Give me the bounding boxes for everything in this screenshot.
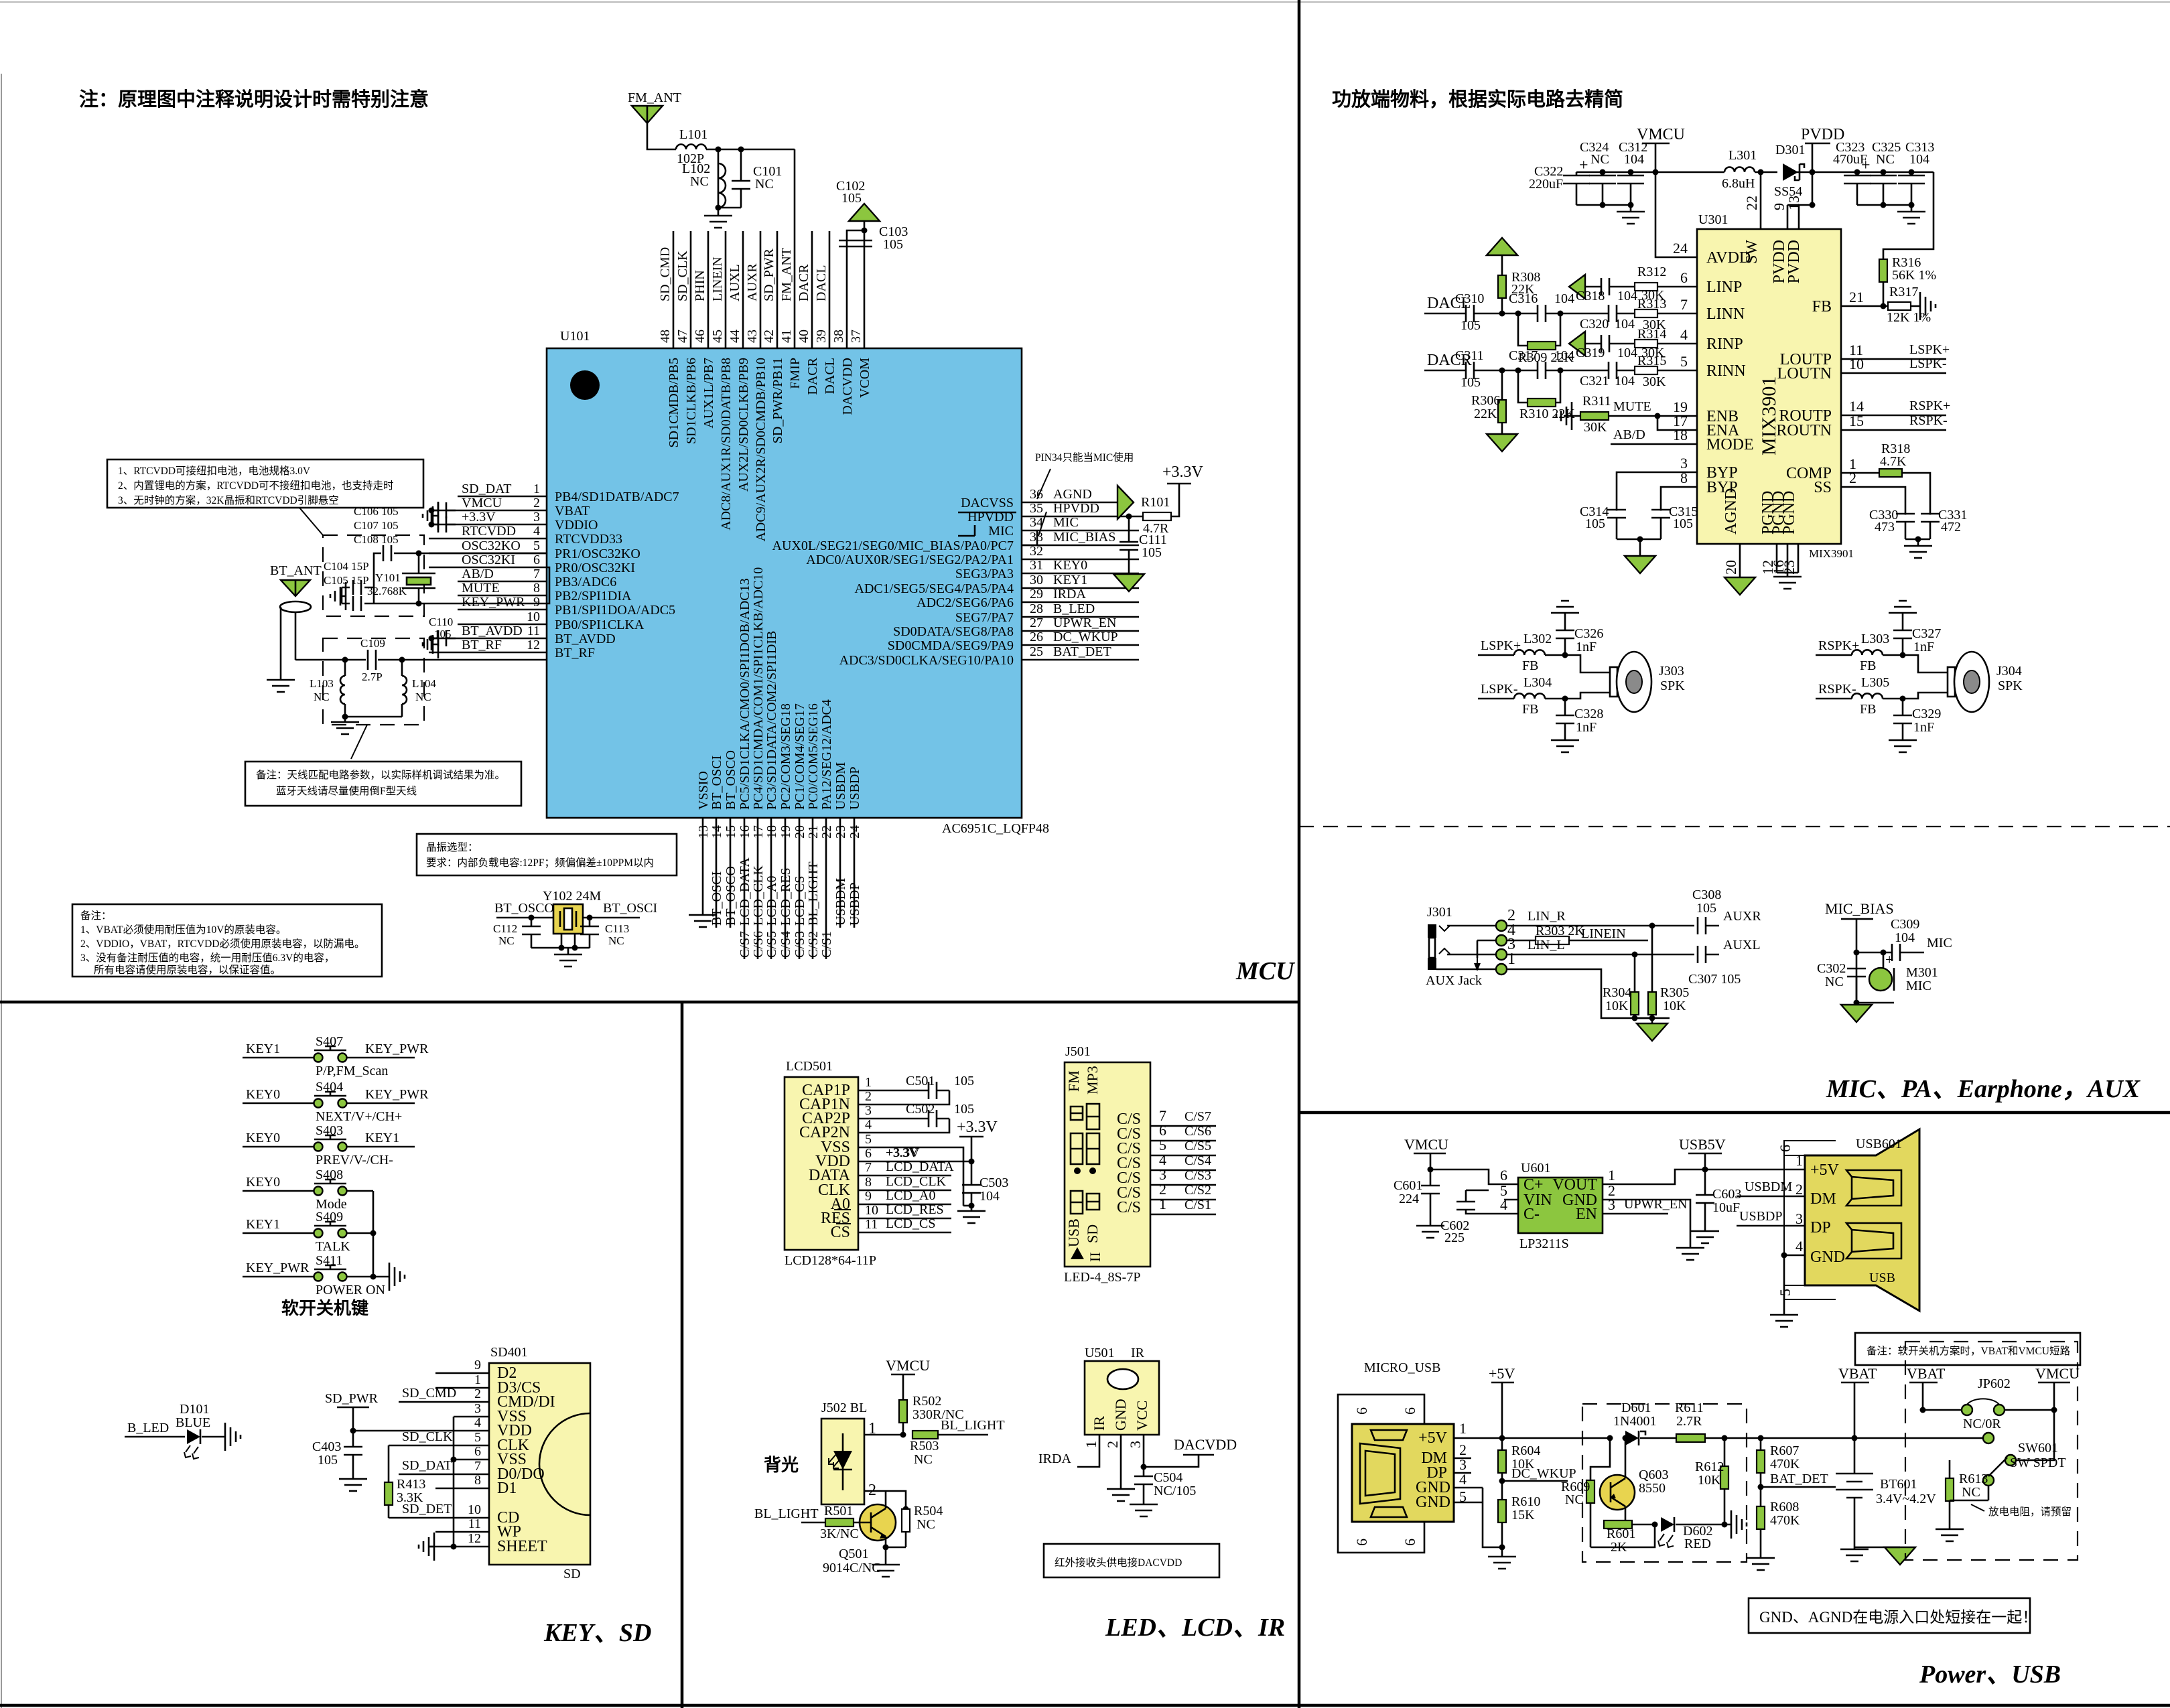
junction C323 top: [1854, 169, 1860, 175]
svg-text:DACVSS: DACVSS: [961, 496, 1014, 510]
svg-text:39: 39: [814, 330, 829, 343]
svg-text:SD_DAT: SD_DAT: [462, 482, 511, 496]
svg-text:C/S4: C/S4: [1184, 1153, 1211, 1168]
wire dc_wkup: [1502, 1480, 1568, 1482]
wire sd pin9: [435, 1372, 489, 1374]
svg-text:1nF: 1nF: [1913, 640, 1934, 654]
svg-text:NC: NC: [1876, 152, 1895, 167]
svg-text:12K 1%: 12K 1%: [1887, 310, 1931, 325]
svg-text:C504: C504: [1154, 1470, 1182, 1485]
svg-text:SD1CLKB/PB6: SD1CLKB/PB6: [684, 358, 699, 444]
svg-text:8: 8: [865, 1175, 872, 1190]
ground C329: [1889, 737, 1917, 752]
J501 digit b2: [1087, 1133, 1099, 1164]
junction BT_RF a: [342, 657, 348, 663]
svg-text:AUXL: AUXL: [728, 264, 742, 301]
svg-text:IR: IR: [1091, 1416, 1107, 1431]
svg-text:RSPK+: RSPK+: [1909, 399, 1950, 413]
wire J501 pin 6: [1150, 1140, 1216, 1142]
svg-text:AB/D: AB/D: [462, 567, 494, 581]
svg-text:U601: U601: [1521, 1161, 1550, 1176]
wire q501 gnd: [885, 1547, 887, 1561]
junction LIN_R: [1649, 923, 1655, 929]
wire Y102 bottom: [531, 947, 590, 949]
wire key common: [373, 1191, 381, 1277]
svg-text:2.7P: 2.7P: [362, 670, 383, 683]
MICRO_USB body: [1352, 1424, 1454, 1522]
section divider vertical center: [1298, 0, 1301, 1708]
junction BT_RF b: [399, 657, 405, 663]
svg-text:AC6951C_LQFP48: AC6951C_LQFP48: [942, 821, 1049, 836]
wire DACR row: [1424, 370, 1467, 372]
svg-text:104: 104: [1615, 374, 1635, 388]
junction HPVDD node: [1126, 514, 1132, 520]
capacitor C105: [353, 596, 361, 611]
+3.3V T bar lcd: [959, 1136, 984, 1138]
junction C107: [429, 522, 435, 528]
ground PGND: [1773, 573, 1802, 589]
svg-text:L302: L302: [1523, 632, 1552, 646]
wire fb elbow: [1883, 172, 1934, 259]
J501 digit a1: [1071, 1107, 1083, 1120]
wire 5v rail to vbat: [1761, 1437, 1980, 1439]
J501 digit c2: [1087, 1194, 1099, 1210]
wire j502 pin2: [864, 1491, 906, 1509]
junction +5v: [1499, 1435, 1505, 1441]
J301 contact marks: [1439, 926, 1450, 954]
svg-text:NEXT/V+/CH+: NEXT/V+/CH+: [316, 1109, 402, 1124]
resistor R316: [1879, 259, 1887, 282]
transistor Q501: [860, 1504, 896, 1541]
wire R312 to LINP: [1657, 286, 1697, 288]
svg-text:NC: NC: [1590, 152, 1609, 167]
wire U101 bottom pin 18: [770, 818, 772, 959]
resistor R413: [385, 1482, 393, 1505]
svg-text:5: 5: [474, 1430, 481, 1445]
svg-text:2.7R: 2.7R: [1676, 1414, 1702, 1429]
svg-text:105: 105: [1461, 375, 1481, 390]
wire U101 bottom pin 21: [812, 818, 814, 959]
junction q501 e: [883, 1545, 889, 1551]
svg-text:MCU: MCU: [1235, 957, 1296, 985]
svg-text:104: 104: [1615, 317, 1635, 332]
svg-text:4: 4: [533, 524, 540, 539]
resistor R504: [902, 1509, 910, 1532]
resistor R310 loop: [1518, 370, 1560, 403]
ground U601 gnd: [1676, 1242, 1704, 1260]
svg-text:II: II: [1087, 1252, 1103, 1262]
svg-text:AGND: AGND: [1722, 488, 1740, 535]
junction FM a: [716, 147, 722, 153]
DACVDD T bar: [1183, 1454, 1214, 1456]
svg-text:4: 4: [865, 1117, 872, 1132]
junction RSPK-: [1900, 696, 1906, 702]
svg-text:7: 7: [1680, 296, 1688, 313]
svg-text:BT_RF: BT_RF: [462, 638, 502, 652]
svg-text:6: 6: [533, 553, 540, 567]
note box capacitors: [72, 904, 382, 977]
svg-text:R611: R611: [1675, 1401, 1704, 1415]
J501 triangle: [1071, 1247, 1084, 1259]
wire U101 top pin 47: [690, 231, 692, 348]
svg-text:KEY、SD: KEY、SD: [543, 1619, 651, 1647]
svg-text:R608: R608: [1770, 1500, 1799, 1514]
svg-text:POWER ON: POWER ON: [316, 1283, 385, 1297]
svg-text:C327: C327: [1912, 626, 1941, 641]
svg-text:LINEIN: LINEIN: [1581, 926, 1626, 941]
svg-text:105: 105: [434, 628, 452, 640]
resistor R101: [1143, 512, 1171, 520]
capacitor C106: [438, 502, 446, 518]
+3.3V T bar: [1167, 483, 1191, 485]
wire +3.3V stem lcd: [971, 1137, 973, 1186]
svg-text:FB: FB: [1812, 298, 1832, 315]
svg-text:470K: 470K: [1770, 1513, 1800, 1528]
svg-text:17: 17: [751, 825, 766, 839]
svg-text:C317: C317: [1509, 348, 1538, 363]
svg-text:VCOM: VCOM: [858, 358, 872, 398]
svg-text:KEY1: KEY1: [246, 1042, 280, 1056]
wire q603 collector: [1625, 1438, 1627, 1478]
svg-text:SD0CMDA/SEG9/PA9: SD0CMDA/SEG9/PA9: [888, 638, 1014, 653]
note box usb short: [1855, 1333, 2080, 1365]
svg-text:DC_WKUP: DC_WKUP: [1053, 630, 1118, 644]
svg-text:KEY0: KEY0: [1053, 558, 1087, 573]
svg-text:C601: C601: [1394, 1178, 1422, 1193]
junction vbat: [1852, 1435, 1858, 1441]
power arrow C102: [849, 204, 880, 221]
wire comp elbow: [1902, 473, 1930, 514]
junction usb5v: [1702, 1167, 1708, 1173]
svg-text:C/S: C/S: [1117, 1199, 1141, 1216]
svg-text:470uF: 470uF: [1833, 152, 1867, 167]
wire bypass bottoms left: [1576, 204, 1631, 206]
svg-text:21: 21: [1849, 289, 1864, 305]
USB601 outer bracket: [1784, 1141, 1836, 1299]
svg-text:45: 45: [710, 330, 725, 343]
svg-text:C/S1: C/S1: [1184, 1198, 1211, 1212]
svg-text:30K: 30K: [1643, 374, 1666, 389]
svg-text:1: 1: [1507, 950, 1515, 968]
wire aux gnd join: [1635, 1017, 1652, 1019]
wire LSPK- row: [1478, 698, 1514, 700]
resistor R313: [1635, 309, 1657, 317]
wire bat_det: [1761, 1486, 1836, 1488]
wire L102 top: [718, 149, 720, 163]
svg-text:LOUTN: LOUTN: [1777, 365, 1832, 382]
speaker J304: [1948, 667, 1955, 697]
svg-text:EN: EN: [1576, 1206, 1597, 1223]
junction d601 in: [1607, 1435, 1613, 1441]
leader PIN34 b: [1038, 512, 1046, 536]
ground rake VMCU cluster: [423, 502, 438, 530]
svg-text:SD: SD: [1084, 1224, 1101, 1243]
svg-text:48: 48: [658, 330, 673, 343]
svg-text:BT_OSCO: BT_OSCO: [724, 750, 738, 810]
wire sd pin8: [435, 1488, 489, 1490]
svg-text:S404: S404: [316, 1080, 343, 1094]
wire vout: [1603, 1169, 1705, 1184]
svg-text:15: 15: [724, 825, 738, 839]
svg-text:AB/D: AB/D: [1613, 427, 1645, 442]
wire lcd pin2: [858, 1090, 949, 1105]
wire key S407 left: [243, 1057, 314, 1059]
wire R315 to RINN: [1657, 370, 1697, 372]
svg-text:11: 11: [865, 1217, 878, 1232]
svg-text:GND: GND: [1416, 1494, 1450, 1511]
wire U101 bottom pin 15: [730, 818, 732, 928]
svg-text:IR: IR: [1131, 1346, 1145, 1360]
svg-text:+3.3V: +3.3V: [957, 1119, 998, 1136]
svg-text:R314: R314: [1637, 327, 1666, 342]
USB601 body: [1805, 1129, 1919, 1311]
section divider vertical bottom-left: [681, 1002, 684, 1708]
capacitor C112: [522, 926, 541, 934]
wire vmcu bl stem: [902, 1374, 904, 1400]
svg-text:3、没有备注耐压值的电容，统一用耐压值6.3V的电容，: 3、没有备注耐压值的电容，统一用耐压值6.3V的电容，: [80, 952, 334, 964]
svg-text:3: 3: [1127, 1441, 1144, 1448]
wire r601 drop: [1590, 1524, 1655, 1547]
svg-text:C106 105: C106 105: [354, 505, 399, 518]
svg-text:NC/0R: NC/0R: [1963, 1417, 2001, 1431]
svg-text:6: 6: [1402, 1539, 1418, 1546]
junction SW node: [1758, 169, 1764, 175]
power arrow RINP: [1569, 332, 1585, 356]
svg-text:KEY_PWR: KEY_PWR: [246, 1261, 310, 1275]
svg-text:C/S7: C/S7: [738, 931, 752, 958]
junction LSPK-: [1562, 696, 1568, 702]
wire U101 bottom pin 14: [716, 818, 718, 928]
J301 pin 1: [1496, 964, 1507, 975]
svg-text:USB: USB: [1869, 1271, 1895, 1285]
svg-text:MIC: MIC: [1053, 515, 1079, 530]
svg-text:GND: GND: [1112, 1399, 1129, 1431]
wire RINP row a: [1585, 343, 1602, 345]
svg-text:C/S3: C/S3: [1184, 1168, 1211, 1183]
wire mute b: [1609, 415, 1697, 417]
svg-text:PC2/COM3/SEG18: PC2/COM3/SEG18: [778, 703, 793, 810]
svg-text:PC3/SD1DATA/COM2/SPI1DIB: PC3/SD1DATA/COM2/SPI1DIB: [764, 631, 779, 810]
ground MICRO_USB: [1488, 1553, 1516, 1569]
svg-text:BT_OSCO: BT_OSCO: [724, 866, 738, 926]
svg-text:KEY1: KEY1: [246, 1217, 280, 1232]
svg-text:VDDIO: VDDIO: [555, 518, 598, 532]
wire U101 pin 9 left: [458, 609, 547, 611]
J501 digit b1: [1071, 1133, 1083, 1164]
section divider horizontal right: [1299, 1111, 2170, 1115]
wire sd pin11: [435, 1531, 489, 1533]
svg-text:+: +: [1885, 951, 1893, 968]
wire mic bias stem: [1856, 919, 1858, 1003]
ground rake D602: [1724, 1510, 1747, 1539]
svg-text:R101: R101: [1141, 495, 1170, 510]
resistor R611: [1676, 1434, 1705, 1442]
svg-text:22K: 22K: [1474, 407, 1497, 421]
svg-text:LINN: LINN: [1706, 305, 1745, 323]
svg-text:24: 24: [1673, 240, 1688, 257]
capacitor C314: [1607, 510, 1626, 518]
svg-text:C328: C328: [1574, 707, 1603, 721]
svg-text:NC: NC: [1825, 975, 1844, 989]
inductor L304: [1514, 693, 1545, 699]
LED D602: [1661, 1517, 1674, 1532]
junction C324 top: [1600, 169, 1606, 175]
ground C326 up: [1551, 601, 1579, 616]
wire c330 c331 join: [1905, 539, 1930, 541]
svg-text:R413: R413: [397, 1477, 425, 1492]
wire C317 to C321: [1545, 370, 1609, 372]
svg-text:2: 2: [1795, 1181, 1803, 1198]
svg-text:PA12/SEG12/ADC4: PA12/SEG12/ADC4: [819, 699, 834, 810]
svg-text:104: 104: [1909, 152, 1929, 167]
wire J501 pin 4: [1150, 1169, 1216, 1171]
wire J501 pin 1: [1150, 1214, 1216, 1216]
svg-text:SD_CLK: SD_CLK: [675, 251, 690, 301]
svg-text:MODE: MODE: [1706, 436, 1754, 453]
wire d601 to r611: [1640, 1437, 1676, 1439]
svg-text:AUXL: AUXL: [1723, 938, 1761, 952]
svg-text:J304: J304: [1996, 664, 2022, 679]
capacitor C602: [1456, 1202, 1475, 1210]
wire ROUTN row: [1841, 429, 1946, 431]
capacitor C321: [1609, 362, 1617, 379]
resistor R318: [1879, 469, 1902, 477]
svg-text:105: 105: [1585, 516, 1605, 531]
junction mic bias: [1854, 950, 1860, 956]
svg-text:SD_PWR: SD_PWR: [762, 248, 776, 301]
J502 led symbol: [842, 1433, 844, 1490]
junction mic gnd: [1854, 1000, 1860, 1006]
svg-text:RINP: RINP: [1706, 336, 1743, 353]
svg-text:2: 2: [1104, 1441, 1121, 1448]
svg-text:7: 7: [865, 1160, 872, 1175]
svg-text:L305: L305: [1861, 675, 1889, 690]
wire U101 right pin 30: [1022, 587, 1139, 589]
wire U101 pin 11 left: [429, 638, 547, 640]
svg-text:105: 105: [954, 1102, 974, 1117]
svg-text:6: 6: [1680, 269, 1688, 286]
ground rake MUTE: [1556, 402, 1572, 430]
svg-text:L104: L104: [412, 677, 436, 690]
svg-text:4: 4: [1500, 1196, 1507, 1213]
wire L302 out: [1545, 655, 1610, 672]
SD_PWR T bar: [337, 1407, 369, 1409]
svg-text:R601: R601: [1607, 1526, 1635, 1541]
junction sd vss2: [451, 1544, 457, 1550]
switch S408: [314, 1187, 323, 1196]
wire key S408 right: [346, 1190, 373, 1192]
svg-text:9: 9: [533, 595, 540, 610]
wire vmcu to sw: [2017, 1410, 2054, 1460]
wire U101 right pin 36: [1022, 502, 1117, 504]
wire sd pin1: [435, 1387, 489, 1389]
MICRO_USB contact small1: [1371, 1430, 1407, 1440]
svg-text:FB: FB: [1522, 702, 1538, 717]
svg-text:38: 38: [831, 330, 846, 343]
capacitor C107: [438, 516, 446, 532]
capacitor C302: [1847, 969, 1866, 977]
capacitor C101: [732, 181, 750, 189]
wire key S411 left: [243, 1276, 314, 1278]
capacitor C110: [438, 630, 446, 646]
svg-text:SPK: SPK: [1998, 679, 2023, 693]
ground antenna match: [331, 717, 359, 734]
diode D601: [1625, 1431, 1639, 1445]
wire U101 pin 4 left: [429, 538, 547, 540]
wire jp602 wires: [1923, 1409, 2054, 1411]
svg-text:J301: J301: [1427, 905, 1452, 920]
junction Y102 left: [529, 915, 535, 921]
VBAT T bar jp: [1909, 1382, 1938, 1384]
wire U101 top pin 42: [776, 231, 778, 348]
wire sd_pwr stem: [352, 1407, 354, 1431]
svg-text:PC0/COM5/SEG16: PC0/COM5/SEG16: [806, 703, 821, 810]
svg-text:LINEIN: LINEIN: [710, 257, 725, 301]
wire key S403 right: [346, 1146, 415, 1148]
svg-text:43: 43: [745, 330, 760, 343]
wire BT_ANT feed: [295, 612, 297, 660]
wire U101 right pin 33: [1022, 545, 1139, 547]
svg-text:2: 2: [533, 496, 540, 510]
svg-text:MIC: MIC: [1927, 936, 1952, 950]
ground Y102: [554, 948, 582, 967]
svg-text:KEY_PWR: KEY_PWR: [365, 1042, 429, 1056]
diode D301 SS54: [1783, 163, 1798, 181]
svg-text:C/S7: C/S7: [1184, 1109, 1211, 1124]
wire FM node: [706, 149, 795, 151]
wire U101 top pin 41: [794, 149, 796, 348]
svg-text:104: 104: [1895, 930, 1915, 945]
wire ROUTP row: [1841, 415, 1946, 417]
J501 body: [1065, 1062, 1150, 1267]
junction DACVDD VCOM: [862, 228, 868, 234]
svg-text:LCD501: LCD501: [786, 1059, 833, 1074]
svg-text:红外接收头供电接DACVDD: 红外接收头供电接DACVDD: [1055, 1557, 1182, 1569]
svg-text:11: 11: [527, 624, 540, 638]
svg-text:C/S5: C/S5: [1184, 1139, 1211, 1153]
svg-text:105: 105: [1461, 318, 1481, 333]
wire C316 to C320: [1545, 313, 1609, 315]
crystal Y101: [402, 573, 435, 588]
svg-text:ADC8/AUX1R/SD0DATB/PB8: ADC8/AUX1R/SD0DATB/PB8: [719, 358, 734, 530]
note box crystal selection: [417, 834, 677, 875]
svg-text:SS: SS: [1814, 479, 1832, 496]
resistor R306: [1498, 400, 1506, 423]
wire lcd vdd: [858, 1161, 971, 1163]
wire C110 bus: [431, 638, 433, 650]
junction r610 gnd: [1499, 1545, 1505, 1551]
switch S407: [314, 1054, 323, 1062]
junction RSPK+: [1900, 652, 1906, 658]
svg-text:NC: NC: [917, 1517, 935, 1532]
svg-text:SD_PWR/PB11: SD_PWR/PB11: [770, 358, 785, 443]
svg-text:PHIN: PHIN: [693, 270, 707, 301]
wire vmcu bus: [1576, 171, 1724, 173]
svg-text:DACR: DACR: [797, 264, 811, 301]
wire J501 pin 3: [1150, 1184, 1216, 1186]
wire sd vss bus: [453, 1417, 455, 1547]
svg-text:软开关机键: 软开关机键: [281, 1298, 368, 1318]
svg-text:R305: R305: [1660, 985, 1689, 1000]
svg-text:24: 24: [847, 825, 862, 839]
wire U101 bottom pin 20: [799, 818, 801, 959]
svg-text:13: 13: [696, 825, 711, 839]
svg-text:C/S2: C/S2: [1184, 1183, 1211, 1198]
wire q501 emitter: [886, 1537, 906, 1547]
wire vmcu to U601: [1430, 1169, 1504, 1184]
LCD RES overline: [834, 1209, 851, 1210]
svg-text:470K: 470K: [1770, 1457, 1800, 1472]
